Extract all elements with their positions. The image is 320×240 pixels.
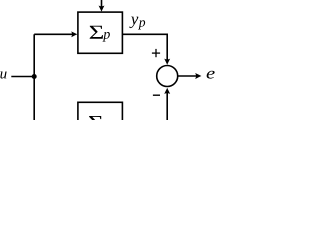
wire: yp output to corner then down to summer	[122, 34, 167, 61]
arrowhead: into summer bottom	[164, 88, 170, 94]
arrowhead: into summer top	[164, 59, 170, 65]
label subscript p of Sigma_p	[102, 32, 109, 42]
model box (clipped at bottom)	[78, 102, 123, 132]
arrowhead: into plant left	[71, 31, 77, 37]
plant box	[78, 12, 123, 53]
wire: top input into plant box	[101, 0, 103, 8]
label e	[207, 71, 215, 79]
plus sign	[152, 49, 160, 57]
label Sigma (plant box)	[90, 26, 103, 39]
label Sigma (model box, clipped)	[89, 116, 102, 129]
minus sign	[153, 94, 160, 96]
label subscript p of y_p	[138, 20, 145, 29]
arrowhead: e output	[195, 73, 201, 79]
wire: e output	[178, 75, 197, 77]
label y of y_p	[129, 17, 138, 28]
wire: left vertical bus	[33, 34, 35, 120]
wire: bottom input up into summer	[166, 92, 168, 120]
label u	[0, 72, 6, 79]
summing junction circle	[157, 66, 178, 87]
junction dot	[32, 74, 37, 79]
wire: input into plant box	[34, 33, 72, 35]
wire: u input horizontal segment	[11, 76, 34, 78]
arrowhead: into plant top	[99, 6, 105, 12]
